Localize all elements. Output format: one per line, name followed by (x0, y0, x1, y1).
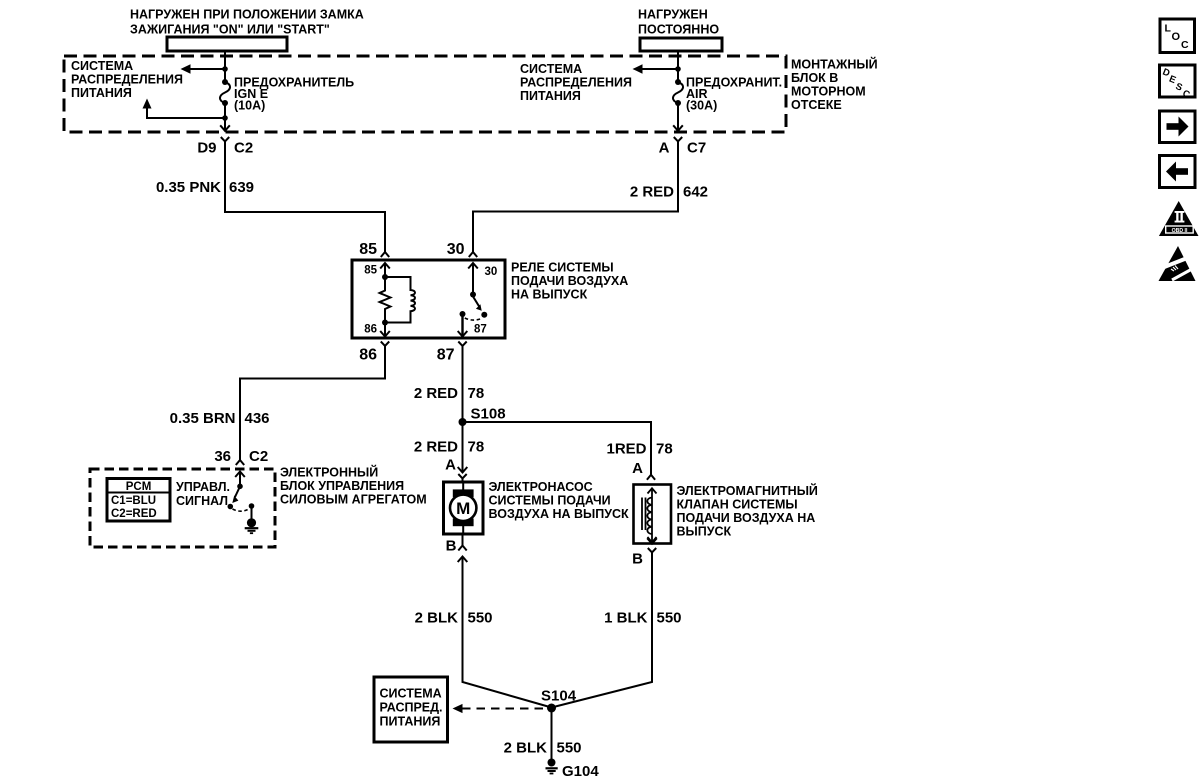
wire 0.35 BRN 436 to PCM (240, 350, 385, 455)
wire fuse AIR to connector C7 (677, 103, 679, 130)
wire 0.35 PNK 639 to relay pin 85 (225, 146, 385, 249)
power distribution reference box (bottom) (374, 677, 448, 742)
svg-text:2 BLK: 2 BLK (504, 740, 548, 757)
svg-text:ПИТАНИЯ: ПИТАНИЯ (380, 715, 441, 729)
svg-text:639: 639 (229, 179, 254, 196)
coil (relay winding) (385, 277, 415, 323)
svg-text:O: O (1172, 31, 1181, 43)
icon DESC box (1160, 65, 1196, 97)
connector below pin 87 (458, 342, 466, 351)
svg-text:БЛОК УПРАВЛЕНИЯ: БЛОК УПРАВЛЕНИЯ (280, 479, 404, 493)
svg-text:БЛОК В: БЛОК В (791, 71, 838, 85)
resistor (relay) (380, 277, 391, 323)
electric AIR pump box (444, 482, 484, 534)
svg-text:0.35 PNK: 0.35 PNK (156, 179, 221, 196)
pin 85 internal arrow (380, 263, 390, 275)
connector female Y into PCM (236, 452, 244, 465)
svg-text:ПИТАНИЯ: ПИТАНИЯ (71, 86, 132, 100)
motor M symbol (462, 484, 464, 492)
bus bar battery feed (640, 38, 722, 51)
icon OBD II triangle (1159, 201, 1199, 236)
svg-text:550: 550 (468, 610, 493, 627)
svg-text:НАГРУЖЕН: НАГРУЖЕН (638, 8, 708, 22)
wire bus2 to fuse AIR (677, 51, 679, 82)
splice S104 (547, 704, 556, 713)
svg-text:УПРАВЛ.: УПРАВЛ. (176, 480, 230, 494)
wire 2 BLK 550 pump to S104 (463, 566, 552, 708)
svg-text:78: 78 (656, 441, 673, 458)
svg-text:СИЛОВЫМ АГРЕГАТОМ: СИЛОВЫМ АГРЕГАТОМ (280, 493, 427, 507)
pin 30 internal arrow and wire (468, 263, 478, 275)
PCM internal arrow from connector (235, 472, 245, 484)
icon ESD triangle (1159, 246, 1196, 281)
pin 87 internal arrow (461, 314, 463, 336)
svg-text:ЭЛЕКТРОННЫЙ: ЭЛЕКТРОННЫЙ (280, 465, 378, 480)
PCM switch arm with arrowhead (235, 489, 239, 498)
svg-text:ВОЗДУХА НА ВЫПУСК: ВОЗДУХА НА ВЫПУСК (489, 507, 630, 521)
ground G104 (548, 759, 556, 767)
svg-text:СИСТЕМА: СИСТЕМА (380, 687, 442, 701)
connector at relay pin 85 (381, 244, 389, 257)
svg-text:(30A): (30A) (686, 99, 717, 113)
power distribution dashed box (underhood fuse block) (64, 56, 786, 132)
svg-text:СИСТЕМА: СИСТЕМА (520, 62, 582, 76)
junction dot at fuse AIR top (675, 66, 681, 72)
fuse AIR (30A) (675, 79, 681, 85)
svg-text:ЗАЖИГАНИЯ "ON" ИЛИ "START": ЗАЖИГАНИЯ "ON" ИЛИ "START" (130, 23, 330, 37)
svg-text:B: B (632, 551, 643, 568)
svg-text:D9: D9 (197, 140, 216, 157)
solenoid coil symbol (651, 488, 653, 542)
svg-text:M: M (456, 499, 470, 518)
svg-text:2 RED: 2 RED (414, 385, 458, 402)
svg-text:436: 436 (245, 410, 270, 427)
svg-text:87: 87 (437, 347, 455, 364)
svg-text:ЭЛЕКТРОМАГНИТНЫЙ: ЭЛЕКТРОМАГНИТНЫЙ (677, 483, 818, 498)
PCM internal ground (251, 508, 253, 519)
svg-text:B: B (446, 538, 457, 555)
svg-text:ВЫПУСК: ВЫПУСК (677, 525, 732, 539)
svg-text:СИГНАЛ: СИГНАЛ (176, 494, 228, 508)
junction dot relay coil top (382, 274, 388, 280)
pin 86 internal arrow (384, 323, 386, 337)
svg-text:ПИТАНИЯ: ПИТАНИЯ (520, 89, 581, 103)
svg-text:ПОДАЧИ ВОЗДУХА НА: ПОДАЧИ ВОЗДУХА НА (677, 511, 816, 525)
svg-text:C2=RED: C2=RED (111, 508, 157, 520)
PCM switch contact dot (left) (228, 504, 234, 510)
wire 2 BLK 550 to G104 (551, 708, 553, 759)
junction dot below fuse (222, 115, 228, 121)
svg-text:C1=BLU: C1=BLU (111, 495, 156, 507)
svg-text:30: 30 (485, 266, 498, 278)
svg-text:МОНТАЖНЫЙ: МОНТАЖНЫЙ (791, 57, 878, 72)
branch wire to power distribution (left arrow) (640, 68, 678, 70)
switch pivot dot (470, 292, 476, 298)
svg-text:S104: S104 (541, 688, 577, 705)
wire fuse to connector C2 (224, 103, 226, 130)
svg-text:МОТОРНОМ: МОТОРНОМ (791, 85, 866, 99)
svg-text:КЛАПАН СИСТЕМЫ: КЛАПАН СИСТЕМЫ (677, 498, 798, 512)
svg-text:1RED: 1RED (606, 441, 646, 458)
icon LOC box (1160, 19, 1195, 53)
switch arm with arrowhead (473, 297, 479, 307)
svg-text:S108: S108 (471, 406, 506, 423)
fuse IGN E (10A) (222, 79, 228, 85)
svg-text:78: 78 (468, 385, 485, 402)
wire 2 RED 642 to relay pin 30 (473, 146, 678, 249)
svg-text:2 RED: 2 RED (414, 439, 458, 456)
svg-text:A: A (659, 140, 670, 157)
dashed link between contacts (233, 509, 250, 511)
dashed reference wire with arrow to box (462, 708, 547, 710)
bus bar ignition feed (167, 37, 287, 51)
branch wire to power distribution (upper left arrow) (188, 68, 225, 70)
solenoid valve box (634, 485, 672, 544)
icon forward arrow box (1160, 111, 1196, 143)
relay K (AIR pump relay) box (352, 260, 505, 338)
svg-text:OBD II: OBD II (1172, 228, 1188, 234)
svg-text:G104: G104 (562, 763, 599, 780)
svg-text:ОТСЕКЕ: ОТСЕКЕ (791, 98, 842, 112)
svg-text:86: 86 (359, 347, 377, 364)
svg-text:L: L (1165, 23, 1172, 35)
svg-text:86: 86 (364, 324, 377, 336)
svg-text:550: 550 (657, 610, 682, 627)
svg-text:78: 78 (468, 439, 485, 456)
svg-text:2 BLK: 2 BLK (415, 610, 459, 627)
svg-text:2 RED: 2 RED (630, 184, 674, 201)
PCM switch contact dot (right) (249, 503, 255, 509)
svg-text:РЕЛЕ СИСТЕМЫ: РЕЛЕ СИСТЕМЫ (511, 261, 614, 275)
svg-text:РАСПРЕДЕЛЕНИЯ: РАСПРЕДЕЛЕНИЯ (520, 76, 632, 90)
PCM legend box (107, 479, 170, 522)
svg-text:СИСТЕМЫ ПОДАЧИ: СИСТЕМЫ ПОДАЧИ (489, 494, 611, 508)
connector below pin 86 (381, 342, 389, 351)
PCM switch pivot dot (237, 484, 243, 490)
junction dot relay coil bottom (382, 320, 388, 326)
pin 87 stub dot (460, 311, 466, 317)
svg-text:(10A): (10A) (234, 99, 265, 113)
wire bus1 to fuse IGN E (224, 51, 226, 82)
svg-text:НАГРУЖЕН ПРИ ПОЛОЖЕНИИ ЗАМКА: НАГРУЖЕН ПРИ ПОЛОЖЕНИИ ЗАМКА (130, 8, 364, 22)
svg-text:СИСТЕМА: СИСТЕМА (71, 59, 133, 73)
connector at relay pin 30 (469, 244, 477, 257)
svg-text:C2: C2 (234, 140, 253, 157)
svg-text:85: 85 (359, 241, 377, 258)
svg-text:C7: C7 (687, 140, 706, 157)
svg-text:550: 550 (557, 740, 582, 757)
svg-text:PCM: PCM (126, 481, 152, 493)
svg-text:A: A (445, 457, 456, 474)
svg-text:C2: C2 (249, 448, 268, 465)
svg-text:ПОДАЧИ ВОЗДУХА: ПОДАЧИ ВОЗДУХА (511, 274, 628, 288)
svg-text:642: 642 (683, 184, 708, 201)
junction dot at fuse top branch (222, 66, 228, 72)
connector C7 pin A (male arrow + female Y) (673, 125, 683, 131)
icon back arrow box (1160, 156, 1196, 188)
dashed link switch to pin 87 (465, 318, 482, 320)
svg-text:НА ВЫПУСК: НА ВЫПУСК (511, 288, 588, 302)
svg-text:РАСПРЕДЕЛЕНИЯ: РАСПРЕДЕЛЕНИЯ (71, 73, 183, 87)
solenoid core bars (641, 498, 643, 531)
svg-text:РАСПРЕД.: РАСПРЕД. (380, 701, 443, 715)
PCM dashed box (90, 469, 275, 547)
branch wire below fuse with up arrow (147, 102, 225, 118)
svg-text:36: 36 (214, 448, 231, 465)
switch contact dot (481, 312, 487, 318)
svg-text:C: C (1181, 39, 1189, 51)
svg-text:A: A (632, 460, 643, 477)
wire S108 to solenoid branch (463, 422, 652, 455)
svg-text:85: 85 (364, 265, 377, 277)
splice S108 (459, 418, 467, 426)
svg-text:30: 30 (447, 241, 465, 258)
connector C2 pin D9 (male arrow + female Y) (220, 125, 230, 131)
svg-text:ЭЛЕКТРОНАСОС: ЭЛЕКТРОНАСОС (489, 480, 593, 494)
wire 2 RED 78 from pin 87 to S108 (462, 350, 464, 455)
svg-text:87: 87 (474, 324, 487, 336)
svg-text:ПОСТОЯННО: ПОСТОЯННО (638, 23, 719, 37)
wire 1 BLK 550 solenoid to S104 (552, 557, 653, 708)
svg-text:0.35 BRN: 0.35 BRN (170, 410, 236, 427)
svg-text:1 BLK: 1 BLK (604, 610, 648, 627)
